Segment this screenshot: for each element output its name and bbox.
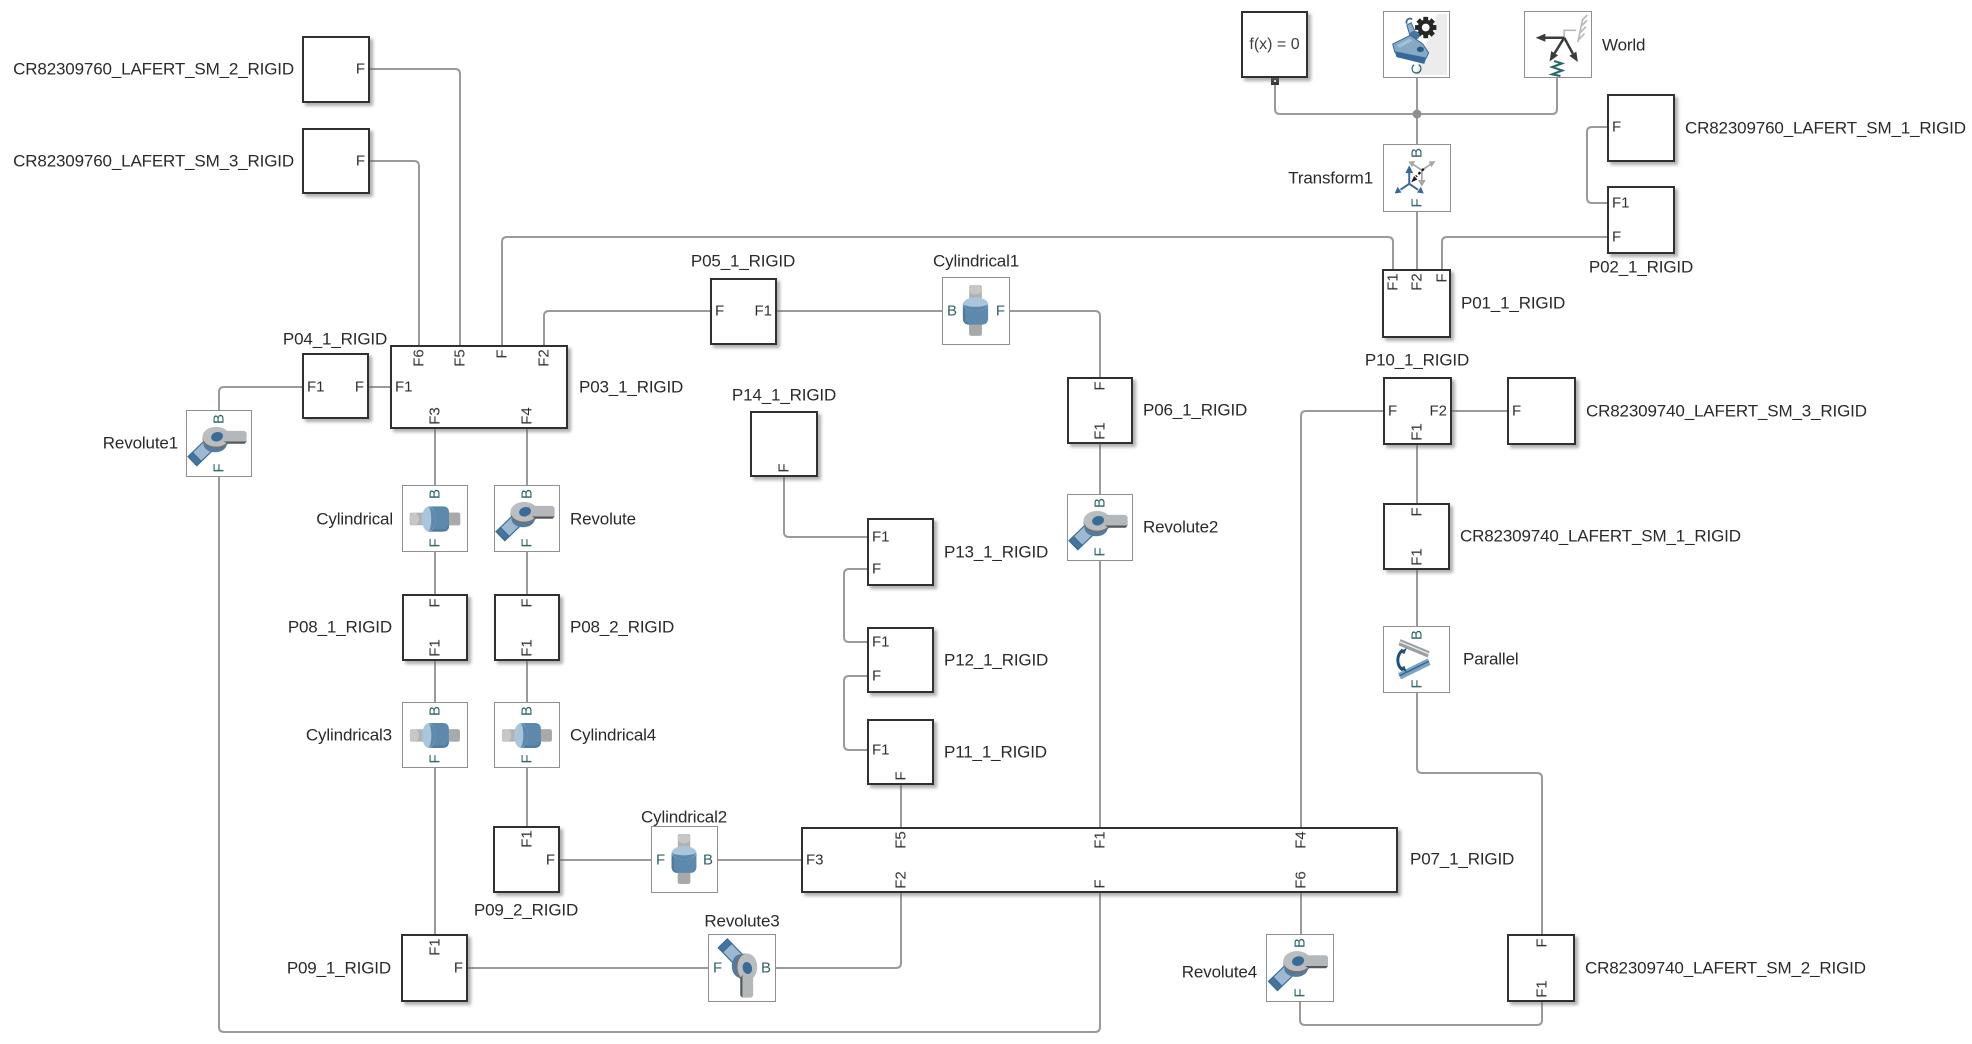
- joint Revolute: [494, 485, 560, 552]
- port F of P08_1: [428, 598, 443, 607]
- port F of P14: [777, 464, 792, 473]
- subsystem P09_2_RIGID: [493, 826, 560, 893]
- wire Revolute1.F to P07.F: [219, 477, 1100, 1032]
- joint Revolute2: [1067, 494, 1133, 561]
- label CR82309760_LAFERT_SM_1_RIGID: [1685, 119, 1966, 138]
- port F3 of P03: [428, 407, 443, 425]
- port B of Revolute: [520, 489, 535, 499]
- wire Cylindrical.F to P08_1.F: [434, 552, 436, 594]
- f(x)=0 conserving port marker: [1271, 77, 1279, 85]
- port B of Cylindrical1: [947, 304, 957, 319]
- label Revolute4: [1182, 963, 1257, 982]
- subsystem P04_1_RIGID: [302, 353, 369, 419]
- wire Cylindrical3.F to P09_1.F1: [434, 768, 436, 934]
- port F5 of P03: [453, 349, 468, 367]
- wire Revolute3.F to P09_1.F: [468, 967, 708, 969]
- port F5 of P07: [894, 831, 909, 849]
- port F1 of P06: [1093, 422, 1108, 440]
- port F of P11: [894, 772, 909, 781]
- port F1 of P03: [395, 380, 413, 395]
- port F1 of P04: [307, 380, 325, 395]
- port B of Transform1: [1410, 148, 1425, 158]
- wire Revolute.F to P08_2.F: [526, 552, 528, 594]
- port F of P05: [715, 304, 724, 319]
- port F of Revolute3: [713, 961, 722, 976]
- wire P09_2.F to Cylindrical2.F: [560, 859, 651, 861]
- wire P12.F to P11.F1: [844, 676, 867, 750]
- label CR82309740_LAFERT_SM_3_RIGID: [1586, 402, 1867, 421]
- label P10_1_RIGID: [1365, 351, 1469, 370]
- label Transform1: [1288, 169, 1373, 188]
- label CR82309740_LAFERT_SM_2_RIGID: [1585, 959, 1866, 978]
- port F1 of P02: [1612, 196, 1630, 211]
- wire P04.F to P03.F1: [369, 386, 390, 388]
- wire Cylindrical4.F to P09_2.F1: [526, 768, 528, 826]
- wire P03.F2 to P05.F: [544, 311, 710, 345]
- wire P03.F3 to Cylindrical.B: [434, 429, 436, 485]
- subsystem P02_1_RIGID: [1607, 186, 1675, 254]
- port F3 of P07: [806, 853, 824, 868]
- label CR82309760_LAFERT_SM_2_RIGID: [13, 60, 294, 79]
- label P01_1_RIGID: [1461, 294, 1565, 313]
- label Cylindrical3: [306, 726, 392, 745]
- joint Cylindrical2: [651, 826, 718, 893]
- port B of Cylindrical3: [428, 706, 443, 716]
- wire P10.F2 to CR82309740_SM_3.F: [1452, 410, 1507, 412]
- label Cylindrical1: [933, 252, 1019, 271]
- wire P10.F to P07.F4: [1301, 411, 1383, 827]
- label P09_1_RIGID: [287, 959, 391, 978]
- wire P13.F to P12.F1: [844, 569, 867, 642]
- port F of Revolute2: [1093, 548, 1108, 557]
- label Cylindrical4: [570, 726, 656, 745]
- label Cylindrical2: [641, 808, 727, 827]
- joint Cylindrical4: [494, 702, 560, 768]
- joint Cylindrical1: [942, 277, 1010, 345]
- port F of P03: [495, 349, 510, 358]
- subsystem CR82309760_LAFERT_SM_3_RIGID: [302, 128, 370, 194]
- port F1 of P08_1: [428, 639, 443, 657]
- wire P02.F1 to CR82309760_SM_1.F: [1587, 127, 1607, 203]
- label P04_1_RIGID: [283, 330, 387, 349]
- joint Parallel: [1383, 626, 1450, 693]
- port B of Revolute4: [1293, 938, 1308, 948]
- port F6 of P03: [412, 349, 427, 367]
- port F1 of P05: [754, 304, 772, 319]
- label P12_1_RIGID: [944, 651, 1048, 670]
- port B of Revolute1: [212, 414, 227, 424]
- wire P11.F to P07.F5: [900, 785, 902, 827]
- label Revolute3: [704, 912, 779, 931]
- wire CR82309740_SM_1.F1 to Parallel.B: [1416, 570, 1418, 626]
- wire Cylindrical2.B to P07.F3: [718, 859, 801, 861]
- port F of P02: [1612, 230, 1621, 245]
- wire P02.F to P01.F: [1442, 237, 1607, 269]
- subsystem P03_1_RIGID: [390, 345, 568, 429]
- subsystem P12_1_RIGID: [867, 627, 934, 693]
- wire Solver.C to junction: [1416, 78, 1418, 114]
- label World: [1602, 36, 1645, 55]
- subsystem CR82309740_LAFERT_SM_3_RIGID: [1507, 377, 1576, 445]
- subsystem CR82309740_LAFERT_SM_1_RIGID: [1383, 503, 1450, 570]
- world frame block: [1524, 11, 1592, 78]
- port F1 of CR82309740_SM_1: [1410, 548, 1425, 566]
- port F of CR82309740_SM_3: [1512, 404, 1521, 419]
- wire P07.F2 to Revolute3.B: [776, 893, 901, 968]
- port F of Transform1: [1410, 199, 1425, 208]
- label P11_1_RIGID: [944, 743, 1047, 762]
- port F1 of P09_2: [520, 830, 535, 848]
- label CR82309740_LAFERT_SM_1_RIGID: [1460, 527, 1741, 546]
- wire Transform1.F to P01.F2: [1416, 212, 1418, 269]
- label Revolute1: [103, 434, 178, 453]
- subsystem P05_1_RIGID: [710, 278, 777, 345]
- subsystem P08_1_RIGID: [402, 594, 468, 661]
- port F of CR82309760_SM_1: [1612, 120, 1621, 135]
- port F1 of P01: [1386, 273, 1401, 291]
- port F of P06: [1093, 381, 1108, 390]
- wire P08_2.F1 to Cylindrical4.B: [526, 661, 528, 702]
- wire P07.F6 to Revolute4.B: [1300, 893, 1302, 934]
- port F of P01: [1435, 273, 1450, 282]
- label Revolute2: [1143, 518, 1218, 537]
- label P07_1_RIGID: [1410, 850, 1514, 869]
- label CR82309760_LAFERT_SM_3_RIGID: [13, 152, 294, 171]
- port F of Revolute1: [212, 464, 227, 473]
- port F1 of P12: [872, 635, 890, 650]
- port F of P04: [355, 380, 364, 395]
- wire Revolute4.F to CR82309740_SM_2.F1: [1300, 1002, 1542, 1025]
- port F of P07: [1093, 880, 1108, 889]
- wire P03.F to P01.F1: [502, 237, 1393, 345]
- subsystem P08_2_RIGID: [494, 594, 560, 661]
- joint Revolute4: [1266, 934, 1334, 1002]
- port F1 of CR82309740_SM_2: [1535, 980, 1550, 998]
- rigid transform Transform1: [1383, 144, 1451, 212]
- label P13_1_RIGID: [944, 543, 1048, 562]
- port F of Cylindrical: [428, 539, 443, 548]
- wire Cylindrical1.F to P06.F: [1010, 311, 1100, 377]
- mechanism configuration block: [1383, 11, 1450, 78]
- port F of CR82309740_SM_1: [1410, 507, 1425, 516]
- port B of Cylindrical4: [520, 706, 535, 716]
- port F2 of P10: [1429, 404, 1447, 419]
- port F1 of P07: [1093, 831, 1108, 849]
- port B of Cylindrical2: [703, 853, 713, 868]
- subsystem CR82309760_LAFERT_SM_2_RIGID: [302, 36, 370, 103]
- port F of Cylindrical3: [428, 755, 443, 764]
- solver block f(x)=0: [1241, 11, 1308, 78]
- label Cylindrical: [316, 510, 393, 529]
- port F of P09_2: [546, 853, 555, 868]
- subsystem P13_1_RIGID: [867, 518, 934, 586]
- label P08_1_RIGID: [288, 618, 392, 637]
- port F of CR82309760_SM_2: [356, 62, 365, 77]
- port F1 of P09_1: [428, 938, 443, 956]
- port F1 of P13: [872, 530, 890, 545]
- subsystem CR82309740_LAFERT_SM_2_RIGID: [1507, 934, 1575, 1002]
- label Parallel: [1463, 650, 1519, 669]
- junction node: [1413, 110, 1422, 119]
- wire P03.F4 to Revolute.B: [526, 429, 528, 485]
- port B of Revolute3: [761, 961, 771, 976]
- subsystem P01_1_RIGID: [1382, 269, 1451, 338]
- port B of Parallel: [1410, 630, 1425, 640]
- joint Cylindrical: [402, 485, 468, 552]
- port F4 of P03: [520, 407, 535, 425]
- port F of P09_1: [454, 961, 463, 976]
- wire P06.F1 to Revolute2.B: [1099, 444, 1101, 494]
- subsystem P06_1_RIGID: [1067, 377, 1133, 444]
- port F2 of P03: [537, 349, 552, 367]
- wire P05.F1 to Cylindrical1.B: [777, 310, 942, 312]
- port F2 of P07: [894, 871, 909, 889]
- subsystem P09_1_RIGID: [401, 934, 468, 1002]
- port F1 of P11: [872, 743, 890, 758]
- port F1 of P10: [1410, 423, 1425, 441]
- label P08_2_RIGID: [570, 618, 674, 637]
- joint Cylindrical3: [402, 702, 468, 768]
- joint Revolute3: [708, 934, 776, 1002]
- label P09_2_RIGID: [474, 901, 578, 920]
- label P05_1_RIGID: [691, 252, 795, 271]
- subsystem P07_1_RIGID: [801, 827, 1398, 893]
- wire P04.F1 to Revolute1.B: [219, 387, 302, 410]
- wire P10.F1 to CR82309740_SM_1.F: [1416, 445, 1418, 503]
- wire junction to World: [1417, 78, 1557, 114]
- wire P14.F to P13.F1: [784, 477, 867, 537]
- port C of Solver: [1410, 63, 1425, 74]
- wire junction to Transform1.B: [1416, 114, 1418, 144]
- port F of Cylindrical1: [996, 304, 1005, 319]
- port F of Cylindrical4: [520, 755, 535, 764]
- port F6 of P07: [1294, 871, 1309, 889]
- port B of Cylindrical: [428, 489, 443, 499]
- port F of P12: [872, 669, 881, 684]
- label P14_1_RIGID: [732, 386, 836, 405]
- port F of P08_2: [520, 598, 535, 607]
- label Revolute: [570, 510, 636, 529]
- wire CR82309760_SM_3.F to P03.F6: [370, 161, 419, 345]
- port F of P13: [872, 562, 881, 577]
- port F1 of P08_2: [520, 639, 535, 657]
- port F of P10: [1388, 404, 1397, 419]
- subsystem CR82309760_LAFERT_SM_1_RIGID: [1607, 94, 1675, 162]
- subsystem P11_1_RIGID: [867, 719, 934, 785]
- wire CR82309760_SM_2.F to P03.F5: [370, 69, 460, 345]
- joint Revolute1: [186, 410, 252, 477]
- wire f(x)=0 port to junction: [1275, 85, 1417, 114]
- port F of CR82309740_SM_2: [1535, 938, 1550, 947]
- port B of Revolute2: [1093, 498, 1108, 508]
- label P03_1_RIGID: [579, 378, 683, 397]
- port F of Revolute4: [1293, 989, 1308, 998]
- label P02_1_RIGID: [1589, 258, 1693, 277]
- subsystem P14_1_RIGID: [750, 411, 818, 477]
- wire P08_1.F1 to Cylindrical3.B: [434, 661, 436, 702]
- port F of Cylindrical2: [656, 853, 665, 868]
- wire Parallel.F to CR82309740_SM_2.F: [1417, 693, 1542, 934]
- wire Revolute2.F to P07.F1: [1099, 561, 1101, 827]
- label P06_1_RIGID: [1143, 401, 1247, 420]
- port F2 of P01: [1410, 273, 1425, 291]
- port F4 of P07: [1294, 831, 1309, 849]
- port F of Revolute: [520, 539, 535, 548]
- subsystem P10_1_RIGID: [1383, 377, 1452, 445]
- port F of Parallel: [1410, 680, 1425, 689]
- port F of CR82309760_SM_3: [356, 154, 365, 169]
